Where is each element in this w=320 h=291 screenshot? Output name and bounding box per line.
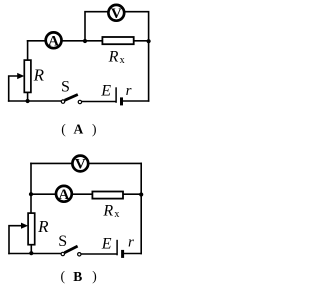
svg-text:A: A bbox=[48, 33, 59, 49]
svg-text:): ) bbox=[92, 269, 97, 284]
wire: voltmeter loop (up from node, across top, down right edge) bbox=[85, 12, 149, 101]
svg-text:r: r bbox=[126, 83, 132, 99]
rheostat R (A) box bbox=[24, 60, 31, 92]
svg-text:A: A bbox=[58, 187, 69, 203]
svg-text:x: x bbox=[114, 209, 119, 220]
rheostat R (A) wiper arrowhead bbox=[17, 73, 24, 79]
node: junction dot right edge (B) bbox=[139, 192, 143, 196]
battery E (B): long thin plate bbox=[116, 240, 118, 256]
wire: top voltmeter line (B) bbox=[31, 162, 141, 164]
ammeter A1 circle bbox=[46, 32, 62, 48]
svg-text:V: V bbox=[75, 157, 86, 173]
switch S (B) right contact bbox=[78, 253, 81, 256]
wire: left edge down to rheostat top bbox=[27, 41, 29, 61]
node: junction dot rheostat bottom (B) bbox=[29, 251, 33, 255]
resistor Rx (A) box bbox=[102, 37, 133, 44]
svg-text:E: E bbox=[101, 236, 112, 253]
node: junction dot left edge (B) bbox=[29, 192, 33, 196]
svg-text:r: r bbox=[128, 234, 134, 250]
wire: left edge from top corner down to rheostat top (B) bbox=[30, 163, 32, 213]
switch S (A) lever bbox=[65, 95, 78, 101]
wire: bottom wire battery to right corner (B) bbox=[124, 253, 141, 255]
wire: rheostat bottom to bottom wire (B) bbox=[30, 244, 32, 253]
svg-text:E: E bbox=[100, 83, 111, 100]
wire: wiper feed (B) bbox=[9, 226, 23, 254]
wire: bottom wire battery to right corner bbox=[123, 100, 148, 102]
wire: right edge (B) bbox=[140, 163, 142, 253]
switch S (A) right contact bbox=[78, 100, 81, 103]
rheostat R (B) box bbox=[28, 213, 35, 245]
svg-text:S: S bbox=[61, 79, 70, 96]
svg-text:): ) bbox=[92, 121, 97, 136]
wire: bottom wire left segment to switch bbox=[9, 100, 62, 102]
voltmeter V1 circle bbox=[108, 5, 124, 21]
rheostat R (B) wiper arrowhead bbox=[21, 223, 28, 229]
node: junction dot right edge (A) bbox=[147, 39, 151, 43]
svg-text:R: R bbox=[102, 203, 113, 220]
ammeter A2 circle bbox=[56, 186, 72, 202]
switch S (B) left contact bbox=[61, 252, 64, 255]
node: junction dot rheostat bottom (A) bbox=[26, 99, 30, 103]
svg-text:(: ( bbox=[61, 121, 66, 136]
svg-text:x: x bbox=[120, 55, 125, 66]
svg-text:B: B bbox=[73, 269, 82, 284]
svg-text:(: ( bbox=[61, 269, 66, 284]
wire: ammeter + Rx row (B) bbox=[31, 193, 141, 195]
svg-text:A: A bbox=[74, 122, 84, 137]
wire: bottom wire switch to battery bbox=[82, 101, 116, 103]
caption (B) bbox=[61, 269, 97, 284]
switch S (A) left contact bbox=[61, 100, 64, 103]
switch S (B) lever bbox=[64, 246, 77, 253]
wire: bottom wire left segment to switch (B) bbox=[9, 253, 61, 255]
wire: A main line (ammeter + Rx row) bbox=[28, 40, 149, 42]
node: junction dot left of Rx (A) bbox=[83, 39, 87, 43]
caption (A) bbox=[61, 121, 96, 136]
battery E (B): short thick plate bbox=[121, 250, 124, 258]
wire: rheostat bottom to bottom wire bbox=[27, 92, 29, 101]
wire: bottom wire switch to battery (B) bbox=[81, 253, 116, 255]
svg-text:V: V bbox=[111, 6, 122, 22]
wire: wiper feed (arrow line, left edge, corner) bbox=[9, 76, 19, 101]
svg-text:R: R bbox=[37, 217, 49, 236]
svg-text:R: R bbox=[33, 65, 45, 84]
resistor Rx (B) box bbox=[92, 192, 123, 199]
svg-text:S: S bbox=[58, 233, 67, 250]
svg-text:R: R bbox=[108, 49, 119, 66]
voltmeter V2 circle bbox=[72, 156, 88, 172]
battery E (A): short thick plate bbox=[120, 97, 123, 105]
battery E (A): long thin plate bbox=[115, 87, 117, 103]
